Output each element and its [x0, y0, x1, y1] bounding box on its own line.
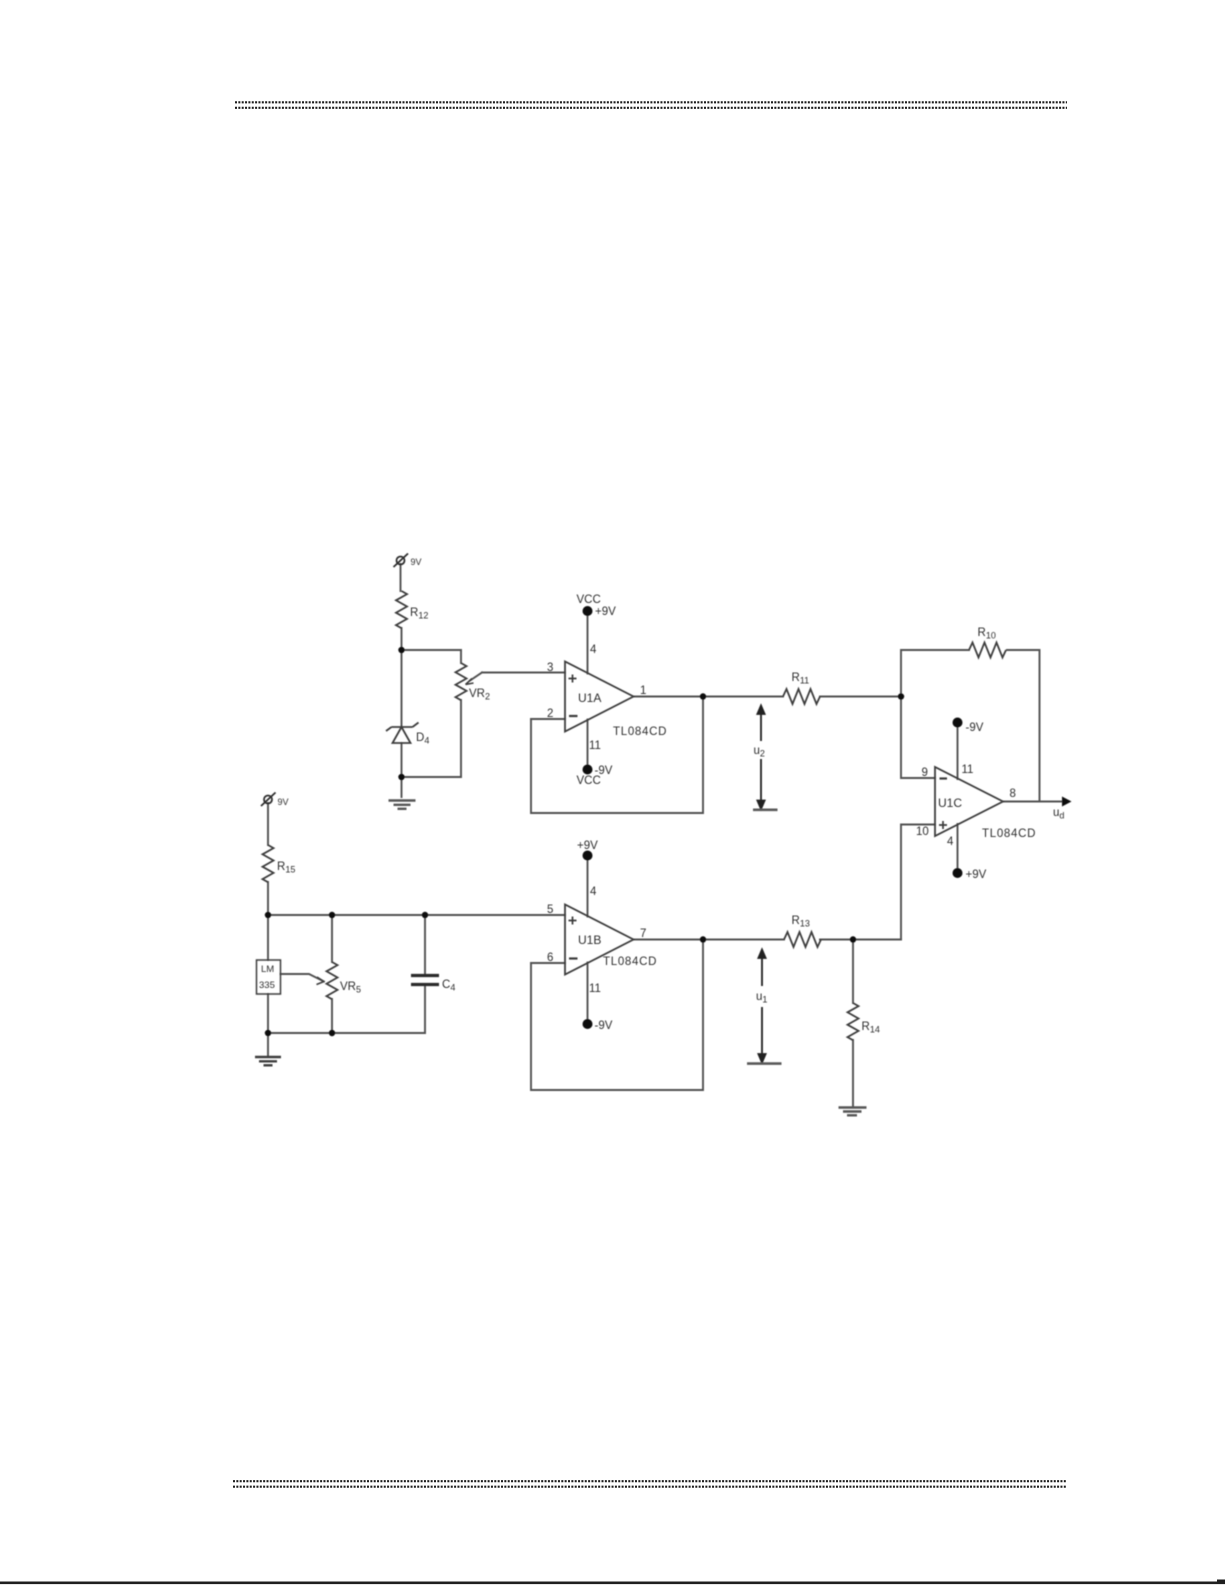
svg-text:10: 10 — [916, 826, 929, 838]
svg-text:7: 7 — [640, 928, 646, 940]
svg-text:4: 4 — [590, 886, 597, 898]
svg-text:R11: R11 — [792, 672, 810, 686]
svg-text:11: 11 — [962, 764, 974, 776]
svg-text:8: 8 — [1010, 788, 1016, 800]
svg-text:335: 335 — [259, 980, 275, 991]
svg-text:R14: R14 — [862, 1021, 880, 1035]
svg-text:TL084CD: TL084CD — [982, 828, 1036, 840]
svg-text:ud: ud — [1053, 807, 1064, 821]
svg-text:VR2: VR2 — [469, 688, 490, 702]
svg-text:TL084CD: TL084CD — [603, 956, 657, 968]
svg-text:-9V: -9V — [966, 722, 984, 734]
svg-text:9V: 9V — [411, 557, 422, 567]
svg-text:R10: R10 — [978, 627, 996, 641]
svg-text:VCC: VCC — [577, 594, 601, 606]
svg-text:2: 2 — [547, 708, 553, 720]
svg-text:R13: R13 — [792, 915, 810, 929]
svg-text:11: 11 — [589, 740, 601, 752]
svg-text:4: 4 — [590, 644, 597, 656]
svg-text:+9V: +9V — [577, 840, 598, 852]
svg-text:u1: u1 — [756, 991, 767, 1005]
svg-text:R12: R12 — [410, 607, 428, 621]
svg-text:C4: C4 — [442, 979, 455, 993]
svg-text:D4: D4 — [416, 732, 429, 746]
svg-text:VR5: VR5 — [340, 981, 361, 995]
svg-text:U1B: U1B — [578, 933, 601, 947]
svg-text:5: 5 — [547, 904, 553, 916]
svg-text:U1A: U1A — [578, 691, 601, 705]
svg-text:U1C: U1C — [938, 796, 962, 810]
svg-text:9V: 9V — [278, 797, 289, 807]
svg-text:R15: R15 — [277, 861, 295, 875]
svg-text:4: 4 — [947, 836, 954, 848]
svg-text:+9V: +9V — [966, 869, 987, 881]
svg-text:u2: u2 — [754, 745, 765, 759]
svg-text:11: 11 — [589, 983, 601, 995]
svg-text:9: 9 — [922, 767, 928, 779]
svg-text:VCC: VCC — [577, 775, 601, 787]
svg-text:LM: LM — [261, 964, 274, 975]
svg-text:3: 3 — [547, 662, 553, 674]
svg-text:TL084CD: TL084CD — [613, 726, 667, 738]
svg-text:+9V: +9V — [595, 606, 616, 618]
svg-text:6: 6 — [547, 952, 553, 964]
svg-text:1: 1 — [640, 685, 646, 697]
svg-text:-9V: -9V — [595, 1020, 613, 1032]
